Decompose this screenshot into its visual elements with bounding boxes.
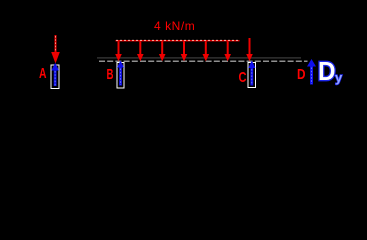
svg-text:D: D	[318, 56, 336, 86]
svg-text:B: B	[107, 66, 114, 83]
load arrow 1	[115, 42, 122, 62]
reaction arrow A	[51, 63, 59, 86]
svg-text:C: C	[239, 69, 247, 86]
support box C	[248, 63, 256, 88]
support box B	[117, 63, 124, 89]
svg-text:4 kN/m: 4 kN/m	[154, 19, 195, 33]
reaction arrow B	[117, 61, 124, 86]
beam top line	[97, 57, 301, 58]
load arrow 3	[159, 42, 166, 62]
svg-text:A: A	[39, 65, 47, 82]
load arrow 4	[181, 42, 188, 62]
reaction arrow D	[307, 59, 316, 85]
load arrow 7	[246, 38, 253, 61]
beam dashed centerline	[99, 60, 308, 62]
svg-text:D: D	[297, 66, 306, 83]
svg-text:y: y	[335, 70, 343, 85]
distributed load top line	[116, 40, 240, 41]
support box A	[51, 65, 59, 89]
load arrow 2	[137, 42, 144, 62]
point load arrow at A	[51, 35, 60, 64]
reaction arrow C	[248, 61, 255, 86]
load arrow 6	[224, 42, 231, 62]
load arrow 5	[203, 42, 210, 62]
